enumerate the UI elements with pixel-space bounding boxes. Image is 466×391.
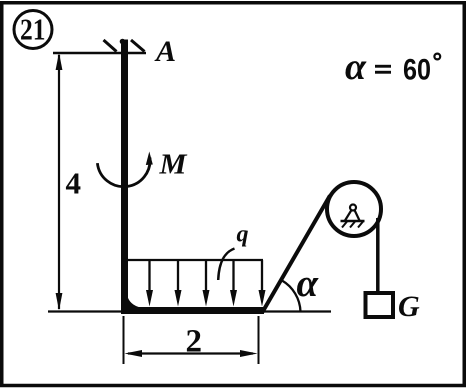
svg-text:α: α (345, 46, 367, 88)
svg-text:4: 4 (66, 166, 82, 201)
svg-text:2: 2 (186, 324, 203, 360)
svg-text:M: M (158, 150, 187, 181)
svg-text:α: α (297, 262, 320, 305)
svg-text:21: 21 (20, 12, 46, 47)
svg-text:60: 60 (403, 54, 431, 87)
svg-text:G: G (398, 290, 420, 323)
svg-text:A: A (154, 35, 176, 68)
svg-text:q: q (237, 222, 249, 248)
